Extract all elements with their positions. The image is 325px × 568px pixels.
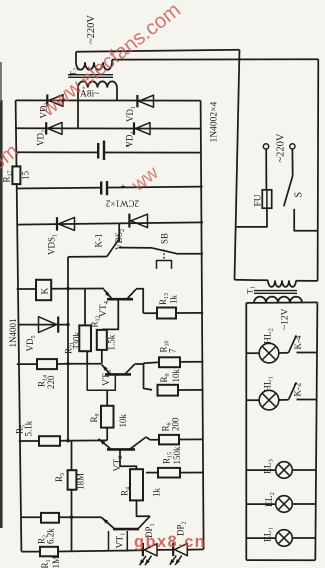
wire: VT3 collector node (135, 364, 153, 390)
relay coil K (36, 280, 51, 300)
diode VD1 of bridge (136, 95, 138, 107)
wire: terminal 2 to switch S (291, 149, 293, 176)
diode VD5 (relay flyback) (18, 324, 68, 326)
resistor R1 (40, 547, 58, 557)
scan artifact: faint left edge upper (0, 62, 2, 102)
switch K-2 blade (289, 382, 297, 399)
wire: T1 primary right (296, 280, 318, 282)
wire: right bus (201, 101, 204, 550)
wire: SB left wire (119, 247, 152, 249)
svg-text:15: 15 (21, 171, 31, 181)
svg-text:1M: 1M (51, 556, 61, 568)
lamp HL1 (246, 399, 259, 401)
lamp EL2 (246, 503, 275, 505)
resistor R6 (159, 435, 179, 445)
resistor R3 top lead (71, 441, 73, 470)
svg-text:~220V: ~220V (86, 15, 97, 44)
transformer T2 core (68, 74, 113, 76)
svg-text:EL3: EL3 (264, 459, 275, 474)
transformer T2 secondary winding (78, 81, 117, 87)
svg-text:www.elecfans.com: www.elecfans.com (0, 139, 23, 262)
wire: R21 top lead (84, 289, 86, 326)
wire: VT2 base lead (120, 449, 137, 469)
wire: rail to relay K (17, 288, 36, 290)
svg-text:2CW1×2: 2CW1×2 (106, 199, 139, 209)
transformer T1 primary wire (235, 279, 269, 282)
junction R5 row / column 68 (66, 439, 69, 442)
wire: mains left vertical (to FU and T1) (235, 50, 240, 280)
svg-text:10k: 10k (171, 369, 181, 383)
switch K-4 blade (289, 335, 297, 352)
svg-text:K: K (41, 288, 51, 295)
resistor R10 row wire (144, 362, 160, 363)
junction at column 68 / relay row (66, 287, 69, 290)
svg-text:~12V: ~12V (281, 308, 291, 330)
junction R14 row / column 68 (66, 362, 69, 365)
resistor R3 (68, 470, 77, 490)
wire: R15 to bus (180, 472, 203, 474)
svg-text:VD2: VD2 (36, 130, 48, 146)
transistor VT4 emitter (104, 289, 112, 299)
wire: R8 top lead (106, 390, 108, 406)
resistor R2 row wire left (21, 516, 41, 518)
wire: S lower contact to right vertical (294, 209, 318, 231)
LED DP2 (172, 543, 174, 556)
wire: between DP1 and DP2 (157, 549, 173, 551)
svg-text:K-1: K-1 (94, 234, 104, 248)
wire: lamp bottom rail (246, 559, 315, 561)
wire: K-1 branch from column 68 (68, 256, 107, 258)
resistor R15 (158, 468, 180, 478)
wire: R8 bottom lead (106, 428, 108, 441)
transformer T1 primary winding (268, 280, 296, 287)
transistor VT3 collector (125, 364, 135, 374)
svg-text:VT4: VT4 (99, 300, 110, 317)
svg-text:1k: 1k (152, 488, 162, 498)
wire: bottom rail left segment (21, 551, 40, 553)
wire: K-4 to right rail (297, 352, 318, 354)
svg-text:+: + (126, 141, 131, 151)
wire: R4 bottom lead to VT1 collector (137, 500, 151, 516)
wire: VT4 collector to down column (136, 289, 143, 314)
svg-text:K-4: K-4 (293, 335, 303, 349)
mains terminal circle 2 (290, 144, 295, 149)
svg-text:R12: R12 (90, 315, 102, 327)
resistor R15 row wire (146, 472, 158, 474)
push button SB blade (152, 248, 176, 254)
wire: lamp rail right (315, 302, 317, 560)
svg-text:FU: FU (254, 194, 264, 206)
junction R3 / R2 row (70, 516, 73, 519)
svg-text:5.1k: 5.1k (24, 420, 34, 436)
wire: R21 bottom lead (86, 351, 88, 363)
transistor VT3 base bar (105, 373, 131, 376)
resistor R5 row wire (19, 440, 39, 442)
transistor VT2 base bar (107, 448, 135, 451)
wire: R9 to bus (178, 389, 203, 391)
diode VD3 of bridge (46, 95, 48, 107)
push button SB actuator (163, 250, 165, 260)
wire: R10 to bus (180, 361, 203, 363)
svg-text:SB: SB (160, 233, 170, 244)
transformer T2 primary winding (75, 52, 77, 62)
diode VD2 of bridge (45, 122, 47, 134)
svg-text:HL2: HL2 (264, 328, 275, 344)
svg-text:220: 220 (46, 375, 56, 389)
mains terminal circle 1 (263, 144, 268, 149)
switch S blade (284, 176, 293, 207)
svg-text:VD1: VD1 (125, 106, 137, 122)
transistor VT2 collector (130, 437, 146, 449)
svg-text:VT1: VT1 (116, 533, 127, 549)
switch K-1 blade (107, 238, 119, 256)
wire: R14 to column 68 (57, 363, 68, 365)
svg-text:18M: 18M (76, 473, 86, 490)
svg-text:200: 200 (171, 417, 181, 431)
transistor VT1 emitter (101, 517, 114, 529)
wire: terminal 1 to fuse (265, 149, 267, 190)
diode VD4 of bridge (133, 122, 135, 134)
zener VDS2 (128, 214, 130, 228)
transistor VT3 emitter (102, 364, 111, 374)
transistor VT4 base bar (107, 298, 133, 301)
LED DP1 (142, 543, 144, 556)
wire: R5 row to VT2 emitter (60, 439, 107, 441)
transistor VT2 emitter (99, 439, 112, 449)
wire: R3 bottom lead (71, 490, 73, 551)
wire: K-1 upper stub from zener row (118, 223, 120, 242)
svg-text:R8: R8 (89, 413, 101, 422)
transformer T2 primary second wire to right vertical (112, 58, 318, 60)
wire: T2 secondary left lead to bridge row 2 (77, 88, 79, 129)
svg-text:1k: 1k (169, 295, 179, 305)
svg-text:S: S (294, 192, 305, 198)
scan artifact: dark left edge (0, 100, 3, 528)
transistor VT1 label box (109, 531, 128, 551)
svg-text:ww: ww (127, 162, 163, 196)
svg-text:R3: R3 (54, 473, 66, 482)
wire: bottom rail across (58, 550, 143, 551)
svg-text:1.5k: 1.5k (107, 334, 117, 350)
svg-text:1N4001: 1N4001 (8, 319, 18, 348)
svg-text:VDS1: VDS1 (47, 234, 59, 255)
junction VD5/column68 (66, 323, 69, 326)
resistor R13 (157, 308, 176, 319)
wire: emitter row to VT3 (68, 363, 101, 365)
transformer T1 secondary winding (254, 297, 302, 303)
svg-text:1N4002×4: 1N4002×4 (210, 102, 220, 143)
resistor R12 (97, 330, 107, 350)
wire: R13 to bus (176, 312, 203, 314)
wire: filter cap row 1 (16, 151, 201, 153)
wire: left supply rail (16, 100, 22, 551)
wire: bridge row 1 (top) (16, 99, 201, 101)
wire: fuse to mains left vertical (237, 208, 267, 227)
wire: VT2 collector to R6 row (146, 437, 159, 440)
wire: zener row (16, 222, 203, 224)
svg-text:gbx8.cn: gbx8.cn (134, 533, 206, 551)
resistor R9 (158, 385, 179, 396)
svg-text:~220V: ~220V (276, 133, 287, 162)
transformer T2 primary top wire to mains (76, 50, 240, 52)
svg-text:EL1: EL1 (264, 527, 275, 542)
wire: mains right vertical (to S and T1) (317, 59, 320, 281)
resistor R8 (101, 406, 114, 428)
resistor R4 (130, 469, 143, 500)
lamp EL1 (246, 537, 275, 539)
wire: VT4 base lead (102, 299, 118, 329)
svg-text:150k: 150k (172, 446, 182, 465)
resistor R10 (159, 357, 180, 367)
resistor R5 (39, 436, 60, 446)
resistor R13 row wire (143, 312, 157, 314)
svg-text:330k: 330k (72, 332, 82, 351)
LED DP1 light arrows (140, 556, 147, 565)
svg-text:VD5: VD5 (25, 335, 37, 351)
svg-text:10k: 10k (118, 414, 128, 428)
wire: DP2 to bus bottom (187, 548, 203, 550)
transformer T1 core (254, 290, 297, 292)
lamp EL3 (246, 469, 275, 471)
capacitor C1 (electrolytic) (99, 147, 103, 159)
resistor R17 (on left rail) (12, 166, 20, 184)
wire: R6 to bus (179, 438, 203, 440)
wire: T2 secondary right lead to bridge row 1 (116, 88, 118, 101)
svg-text:EL2: EL2 (265, 492, 276, 507)
svg-text:HL1: HL1 (264, 376, 275, 392)
svg-text:VT2: VT2 (113, 456, 124, 472)
capacitor C2 (electrolytic) (102, 184, 106, 193)
LED DP2 light arrows (170, 556, 177, 565)
wire: SB right wire to bus (176, 253, 203, 255)
svg-text:R9: R9 (159, 373, 171, 382)
fuse FU (262, 190, 271, 208)
zener VDS1 (56, 217, 58, 230)
wire: bridge row 2 (15, 127, 201, 129)
svg-text:K-2: K-2 (293, 383, 303, 397)
transistor VT4 collector (127, 289, 136, 299)
resistor R14 row wire (17, 363, 37, 365)
wire: K-2 to right rail (297, 399, 317, 401)
svg-text:+: + (121, 182, 126, 192)
resistor R14 (37, 359, 57, 369)
wire: R12 bottom lead (101, 350, 103, 364)
transistor VT1 base bar (113, 528, 139, 531)
svg-text:www.elecfans.com: www.elecfans.com (36, 0, 185, 122)
wire: R2 row to VT1 emitter (59, 516, 101, 518)
wire: relay K to junction (51, 288, 104, 290)
lamp HL2 (246, 352, 259, 354)
wire: filter cap row 2 (16, 187, 203, 189)
svg-text:7: 7 (168, 348, 178, 353)
wire: column 68 vertical (67, 257, 69, 441)
resistor R21 (79, 325, 91, 351)
wire: T1 secondary line (246, 301, 317, 304)
transistor VT3 label box (87, 363, 115, 390)
wire: lamp rail left (245, 303, 247, 560)
transistor VT1 collector (138, 516, 150, 529)
resistor R2 (41, 513, 59, 523)
svg-text:6.2k: 6.2k (46, 528, 56, 544)
